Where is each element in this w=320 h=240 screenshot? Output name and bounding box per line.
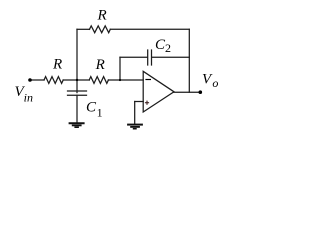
op-amp plus pin label: [145, 101, 149, 105]
svg-text:R: R: [95, 57, 105, 73]
resistor R (second): [89, 77, 108, 84]
node Vo (output terminal dot): [199, 90, 203, 94]
wire: non-inverting input down to ground: [134, 102, 136, 124]
wire: from C1 bottom plate to ground: [76, 95, 78, 122]
wire: non-inverting input stub: [135, 101, 144, 103]
wire: right vertical from top feedback to output node: [188, 29, 190, 92]
wire: left vertical from top feedback corner down to main line: [76, 29, 78, 80]
wire: riser from inverting node up to C2 branch: [119, 57, 121, 80]
wire: from second resistor to op-amp inverting input: [108, 79, 143, 81]
junction: left vertical crossing main line: [76, 79, 78, 81]
resistor R (input, first): [44, 77, 63, 84]
node Vin (input terminal dot): [28, 78, 32, 82]
ground (below C1): [69, 123, 85, 127]
svg-text:R: R: [52, 57, 62, 73]
svg-text:R: R: [97, 8, 107, 24]
wire: top feedback left segment: [77, 28, 90, 30]
wire: C2 branch left segment: [120, 56, 147, 58]
resistor R (top feedback): [90, 26, 111, 33]
wire: C2 branch right segment: [152, 56, 189, 58]
wire: from main line down to capacitor C1: [76, 80, 78, 93]
wire: input stub from Vin node: [30, 79, 44, 81]
op-amp U1: [143, 71, 174, 112]
capacitor C2: [148, 50, 152, 65]
capacitor C1: [68, 91, 87, 95]
wire: op-amp output to Vo node: [174, 91, 200, 93]
wire: between first and second resistors: [63, 79, 89, 81]
junction: main line with C2 riser: [119, 79, 121, 81]
ground (op-amp non-inverting input): [127, 125, 143, 129]
op-amp minus pin label: [145, 79, 151, 81]
wire: top feedback right segment: [110, 28, 189, 30]
